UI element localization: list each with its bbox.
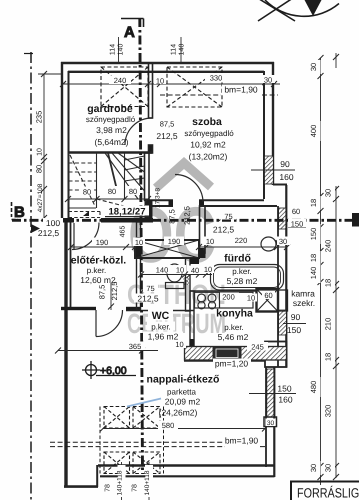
dim texts konyha bottom — [173, 340, 268, 352]
WC left wall black segment — [136, 237, 141, 258]
svg-text:szoba: szoba — [192, 116, 222, 128]
roof window nappali box 2 — [133, 407, 160, 429]
north arc — [265, 0, 339, 16]
bottom wall inner line — [98, 464, 275, 466]
dim 365 — [125, 342, 145, 352]
svg-text:10: 10 — [156, 77, 164, 86]
svg-text:190: 190 — [96, 238, 109, 247]
watermark roof icon — [156, 163, 211, 188]
dim chain right inner ticks — [318, 55, 324, 480]
svg-text:330: 330 — [210, 74, 223, 83]
svg-text:465: 465 — [120, 226, 127, 238]
svg-text:87,5: 87,5 — [168, 209, 177, 224]
toilet tank — [166, 283, 185, 289]
svg-text:212,5: 212,5 — [110, 282, 119, 301]
svg-text:szőnyegpadló: szőnyegpadló — [86, 115, 136, 124]
svg-text:60: 60 — [292, 207, 300, 216]
dim line 365 — [58, 350, 158, 352]
furdo window hatch — [279, 208, 286, 229]
svg-text:150: 150 — [291, 220, 304, 229]
svg-text:4x27=108: 4x27=108 — [37, 183, 44, 212]
svg-text:114: 114 — [110, 44, 117, 55]
svg-text:10: 10 — [206, 237, 214, 246]
dim line top row — [63, 83, 280, 85]
bm dashed line szoba — [160, 94, 278, 96]
svg-text:30: 30 — [309, 63, 318, 71]
door arc nappali — [96, 310, 123, 337]
dim extension bottom 2 — [148, 462, 150, 500]
svg-text:20,09 m2: 20,09 m2 — [165, 397, 201, 407]
gardrobe szoba divider wall upper — [149, 63, 153, 118]
dim 87,5 + 212,5 horizontal — [156, 120, 178, 142]
elotér bottom wall left — [61, 307, 96, 310]
DIMS — [38, 37, 339, 500]
dim konyha window — [287, 312, 301, 335]
toilet bowl — [167, 264, 182, 282]
section label B bracket — [12, 202, 19, 220]
svg-text:580: 580 — [162, 421, 175, 430]
svg-text:400: 400 — [309, 125, 318, 138]
konyha bottom wall line — [184, 360, 265, 362]
nappali right wall outer line — [273, 367, 275, 477]
svg-text:320: 320 — [324, 405, 333, 418]
dim ticks top row — [60, 81, 277, 87]
dim extension elotér door — [110, 283, 112, 310]
svg-text:100: 100 — [46, 218, 60, 228]
dim extension 114-140 left — [118, 37, 120, 63]
WALLS — [61, 62, 288, 487]
svg-text:parketta: parketta — [167, 388, 196, 397]
stair hidden steps dashed — [69, 163, 125, 199]
svg-text:212,5: 212,5 — [156, 131, 178, 141]
svg-text:150: 150 — [287, 325, 301, 335]
svg-text:140: 140 — [156, 266, 169, 275]
grid corner mark top left — [24, 53, 33, 55]
svg-text:140+118: 140+118 — [144, 470, 151, 495]
svg-text:szekr.: szekr. — [293, 298, 315, 308]
svg-text:75: 75 — [224, 212, 232, 221]
dim nappali window — [277, 384, 292, 405]
stair hidden diagonal dashed — [70, 155, 124, 206]
svg-text:365: 365 — [129, 342, 142, 351]
svg-text:160: 160 — [278, 395, 292, 405]
bottom wall outer line — [100, 475, 275, 477]
svg-text:235: 235 — [35, 111, 44, 124]
shaft box elotér furdo — [135, 240, 199, 258]
dim line nappali window — [249, 393, 296, 395]
svg-text:80: 80 — [83, 188, 91, 197]
shaft box konyha — [257, 289, 279, 312]
dim line konyha window — [283, 323, 306, 325]
svg-text:10,92 m2: 10,92 m2 — [190, 140, 226, 150]
room label furdo — [221, 252, 254, 265]
svg-text:245: 245 — [251, 343, 264, 352]
section line A vertical — [140, 18, 143, 470]
gardrobe szoba divider wall lower — [149, 145, 153, 153]
stove burner 2 — [208, 294, 216, 302]
svg-text:80: 80 — [129, 187, 137, 196]
svg-text:18: 18 — [309, 199, 318, 207]
door leaf elotér entry — [73, 223, 75, 249]
svg-text:fürdő: fürdő — [224, 253, 251, 265]
door arc szoba — [175, 175, 203, 203]
nappali right wall inner line — [265, 367, 267, 467]
svg-text:190: 190 — [168, 237, 181, 246]
kitchen sink block — [213, 347, 241, 361]
svg-text:bm=1,90: bm=1,90 — [225, 436, 259, 446]
furdo left wall — [200, 206, 206, 253]
dim extension bottom 1 — [121, 462, 123, 500]
stair right wall black end — [145, 200, 153, 218]
svg-text:p.ker.: p.ker. — [224, 323, 244, 332]
svg-text:WC: WC — [152, 310, 170, 322]
svg-text:200: 200 — [222, 293, 235, 302]
szoba bottom wall upper line — [144, 199, 264, 201]
dim chain left vertical — [43, 74, 45, 218]
svg-text:p.ker.: p.ker. — [151, 323, 171, 332]
svg-text:78: 78 — [132, 484, 139, 492]
door leaf nappali — [95, 310, 97, 337]
svg-text:szőnyegpadló: szőnyegpadló — [184, 129, 234, 138]
section label A bracket — [121, 19, 144, 28]
svg-text:5,28 m2: 5,28 m2 — [227, 276, 258, 286]
dim line middle row — [71, 246, 287, 248]
konyha bottom right block — [265, 342, 287, 368]
dim underline 18,12/27 — [105, 216, 149, 218]
blue pen mark — [127, 399, 161, 407]
svg-text:90: 90 — [280, 159, 290, 169]
szoba right wall step top — [273, 184, 287, 186]
B wall band right part — [101, 218, 153, 223]
TITLE — [291, 482, 359, 500]
left wall outer line lower — [64, 218, 67, 487]
left wall inner line lower — [70, 222, 72, 307]
roof window box gardrobe — [101, 67, 148, 107]
north cross line 2 — [258, 0, 296, 21]
rotated right chain inner labels — [309, 60, 321, 475]
dim texts konyha top — [220, 291, 275, 303]
dim furdo window — [292, 207, 300, 216]
dim ticks middle row — [68, 244, 290, 250]
svg-text:gardrobé: gardrobé — [87, 103, 133, 115]
svg-text:10: 10 — [247, 294, 255, 303]
svg-text:30: 30 — [324, 464, 333, 472]
roof window nappali box 1 — [104, 407, 130, 429]
bm label nappali — [224, 435, 261, 446]
stove burner 4 — [208, 302, 215, 309]
svg-text:nappali-étkező: nappali-étkező — [147, 374, 220, 386]
svg-text:30: 30 — [267, 420, 275, 427]
stair tread line v2 — [124, 153, 126, 199]
svg-text:114: 114 — [171, 44, 178, 55]
svg-text:212,5: 212,5 — [137, 294, 159, 304]
label pm konyha — [213, 359, 251, 369]
svg-text:17,3+8: 17,3+8 — [155, 188, 162, 208]
room label wc — [143, 310, 183, 342]
washbasin furdo — [261, 237, 276, 251]
szoba door jamb left — [169, 200, 174, 207]
svg-text:80: 80 — [184, 277, 191, 285]
elevation marker symbol — [82, 361, 136, 379]
dim ticks wc row — [138, 272, 209, 278]
dim line furdo window — [288, 227, 306, 229]
svg-text:A: A — [124, 24, 135, 41]
WC left wall — [137, 222, 141, 310]
dim chain left ticks — [41, 71, 47, 221]
WATERMARK — [127, 163, 226, 339]
svg-text:30: 30 — [324, 189, 333, 197]
svg-text:(5,64m2): (5,64m2) — [94, 137, 128, 147]
WC right wall — [186, 258, 191, 311]
svg-text:18: 18 — [324, 353, 333, 361]
svg-text:10: 10 — [204, 265, 212, 274]
stair label — [105, 206, 149, 218]
nook wall black — [190, 258, 199, 264]
bm label szoba — [222, 85, 262, 95]
stair right wall — [145, 153, 150, 200]
szoba bottom wall lower line — [144, 205, 277, 207]
svg-text:140+118: 140+118 — [117, 470, 124, 495]
svg-text:60: 60 — [264, 291, 272, 300]
washbasin tap — [276, 240, 278, 248]
svg-text:240: 240 — [324, 240, 333, 253]
elotér bottom wall stub — [126, 307, 141, 310]
svg-text:90: 90 — [291, 312, 301, 322]
svg-text:(24,26m2): (24,26m2) — [159, 408, 198, 418]
svg-text:150: 150 — [309, 228, 318, 241]
szoba door jamb right — [199, 200, 204, 207]
rotated left chain labels — [35, 111, 45, 213]
nappali window hatch — [267, 369, 274, 417]
svg-text:10: 10 — [176, 266, 184, 275]
dim texts wc row — [153, 265, 214, 276]
roof window nappali box 4 — [133, 452, 160, 474]
konyha left wall jamb — [190, 339, 195, 347]
section B arrow left — [31, 224, 40, 233]
dim line wc row — [141, 274, 212, 276]
roof window side dashes — [100, 407, 164, 474]
rotated 114 140 pair 2 — [171, 44, 186, 56]
svg-text:előtér-közl.: előtér-közl. — [71, 255, 127, 267]
stair arrow mark — [83, 211, 89, 216]
svg-text:40: 40 — [191, 266, 199, 275]
dim texts stairs — [80, 186, 140, 197]
dim line szoba window — [251, 169, 295, 171]
kamra wall block — [278, 290, 288, 311]
konyha left wall — [190, 291, 194, 346]
svg-text:80: 80 — [35, 165, 44, 173]
middle right wall outer line — [285, 185, 287, 367]
dim tick 75 lower — [141, 286, 147, 293]
top wall outer line — [61, 62, 274, 65]
dim ticks stairs — [65, 196, 151, 202]
svg-text:5,46 m2: 5,46 m2 — [218, 332, 249, 342]
dim line 580 — [103, 428, 265, 430]
konyha furdo divider line — [190, 290, 256, 292]
dim 150 right B — [288, 219, 306, 229]
bm dashed line nappali upper — [50, 441, 225, 443]
roof window nappali box 3 — [104, 452, 130, 474]
roof window box szoba — [167, 67, 222, 107]
stair walk line — [108, 153, 117, 190]
stove counter top — [195, 292, 254, 308]
STAIRS — [69, 153, 145, 218]
svg-text:30: 30 — [309, 464, 318, 472]
svg-text:18: 18 — [309, 254, 318, 262]
svg-text:210: 210 — [324, 318, 333, 331]
stair tread line v1 — [96, 153, 98, 208]
svg-text:140: 140 — [118, 44, 125, 56]
bottom step vertical — [96, 465, 98, 487]
stove divider — [219, 292, 221, 308]
stair winder lines — [105, 153, 145, 199]
dim extension 114-140 right — [180, 37, 182, 63]
bm dashed line nappali lower — [50, 446, 266, 448]
svg-text:p.ker.: p.ker. — [87, 266, 107, 275]
svg-text:+6,00: +6,00 — [100, 365, 127, 377]
north triangle — [305, 0, 322, 16]
kitchen sink inner — [216, 349, 238, 358]
dim 30 box — [266, 419, 276, 427]
svg-text:3,98 m2: 3,98 m2 — [96, 125, 127, 135]
stairs gardrobe divider wall — [68, 151, 152, 154]
dim 75 + 212,5 lower — [134, 284, 162, 304]
svg-text:78: 78 — [105, 484, 112, 492]
section line B horizontal — [12, 219, 359, 222]
dim ticks 365 — [55, 348, 145, 354]
nappali window lower block — [264, 417, 277, 427]
svg-text:10: 10 — [135, 238, 143, 247]
middle right wall inner line — [277, 206, 279, 367]
svg-text:30: 30 — [279, 237, 287, 246]
svg-text:480: 480 — [309, 381, 318, 394]
konyha window hatch — [279, 310, 287, 335]
door arc elotér entry — [72, 223, 99, 250]
rotated 114 140 pair 1 — [110, 44, 125, 56]
section B marker right — [352, 213, 359, 227]
stove burner 1 — [198, 294, 206, 302]
dim texts top row — [109, 73, 275, 86]
svg-text:10: 10 — [175, 340, 183, 349]
svg-text:87,5: 87,5 — [98, 285, 107, 300]
bathtub — [211, 265, 284, 291]
svg-text:212,5: 212,5 — [38, 228, 60, 238]
dim chain right inner — [320, 58, 322, 485]
svg-text:p.ker.: p.ker. — [232, 267, 252, 276]
grid line left vertical — [30, 52, 32, 500]
svg-text:150: 150 — [277, 384, 291, 394]
svg-text:80: 80 — [108, 187, 116, 196]
svg-text:212,5: 212,5 — [213, 225, 235, 235]
dim tick 75 upper — [219, 214, 225, 221]
north cross line 1 — [256, 0, 295, 21]
rotated 87,5 212,5 stairs right — [168, 206, 192, 225]
door arc gardrobe — [125, 118, 152, 145]
stove burner 3 — [198, 302, 205, 309]
DOORS — [72, 118, 203, 337]
title block border — [291, 482, 359, 500]
szoba window hatch — [265, 156, 274, 184]
svg-text:240: 240 — [114, 76, 127, 85]
dim texts middle row — [92, 236, 290, 248]
bathtub inner line — [214, 267, 281, 288]
stair under-landing dashed box — [69, 212, 101, 218]
dim 580 — [158, 421, 178, 431]
svg-text:kamra: kamra — [291, 289, 315, 299]
left wall inner line upper — [68, 71, 70, 218]
kitchen counter hatched — [185, 347, 287, 361]
svg-text:bm=1,90: bm=1,90 — [224, 85, 258, 95]
left wall outer line upper — [61, 62, 63, 222]
svg-text:(13,20m2): (13,20m2) — [189, 152, 228, 162]
svg-text:30: 30 — [264, 76, 272, 85]
stair bottom edge — [69, 207, 97, 209]
svg-text:212,5: 212,5 — [183, 206, 192, 225]
dim chain right outer ticks — [333, 54, 339, 480]
svg-text:87,5: 87,5 — [160, 120, 175, 129]
dim ticks 580 — [100, 426, 268, 432]
svg-text:160: 160 — [279, 172, 293, 182]
svg-text:10: 10 — [37, 148, 44, 156]
szoba right wall outer line — [272, 62, 274, 185]
svg-text:140: 140 — [309, 267, 318, 280]
svg-text:18: 18 — [324, 279, 333, 287]
svg-text:220: 220 — [235, 236, 248, 245]
dim chain left top extension — [38, 73, 62, 75]
dim chain right outer — [335, 53, 337, 478]
B wall band left part — [62, 218, 74, 223]
dim 100 + 212,5 left — [38, 218, 63, 238]
svg-text:140: 140 — [179, 44, 186, 56]
dim 75 + 212,5 upper — [209, 211, 237, 235]
svg-text:pm=1,20: pm=1,20 — [215, 359, 249, 369]
bottom left outer line — [64, 485, 98, 488]
svg-text:konyha: konyha — [216, 308, 253, 320]
svg-text:75: 75 — [146, 284, 154, 293]
dim line stairs — [68, 198, 148, 200]
furdo left wall jamb — [199, 248, 206, 258]
dim szoba window — [279, 159, 293, 182]
FIXTURES — [166, 237, 287, 360]
rotated 87,5 212,5 elotér — [98, 282, 120, 301]
rotated right chain outer labels — [324, 186, 336, 475]
rotated bottom labels — [105, 465, 154, 497]
top wall inner line — [68, 71, 264, 73]
WC bottom line — [126, 310, 194, 312]
szoba right wall inner line — [263, 71, 265, 199]
svg-text:B: B — [14, 204, 25, 221]
svg-text:FORRÁSLIGET: FORRÁSLIGET — [297, 486, 359, 500]
stair left edge — [68, 153, 70, 208]
svg-text:18,12/27: 18,12/27 — [109, 207, 146, 218]
